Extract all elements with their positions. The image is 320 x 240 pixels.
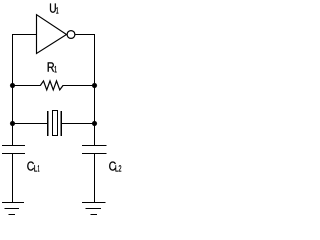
- label R1: [48, 62, 57, 72]
- capacitor CL2: [82, 146, 107, 203]
- wire: inverter output to right rail: [75, 34, 95, 36]
- capacitor CL1: [2, 146, 25, 203]
- resistor R1: [12, 81, 95, 90]
- label CL1: [27, 162, 39, 172]
- junction dot: crystal left: [10, 121, 15, 126]
- ground (left): [2, 203, 24, 215]
- label U1: [50, 4, 58, 14]
- wire: right rail vertical (top to CL2): [94, 34, 96, 146]
- junction dot: R1 left: [10, 83, 15, 88]
- inverter output bubble: [67, 31, 75, 39]
- crystal Y1: [12, 111, 95, 137]
- wire: inverter input from left rail: [12, 34, 37, 36]
- ground (right): [82, 203, 106, 215]
- label CL2: [109, 162, 121, 172]
- junction dot: R1 right: [92, 83, 97, 88]
- junction dot: crystal right: [92, 121, 97, 126]
- op-amp U1 inverter triangle: [37, 15, 67, 54]
- wire: left rail vertical (top to CL1): [12, 34, 14, 146]
